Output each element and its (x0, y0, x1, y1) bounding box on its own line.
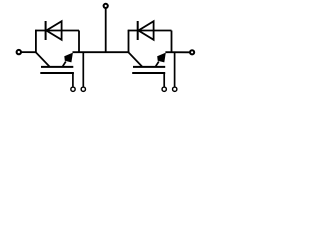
wire collector riser 2 (128, 30, 130, 53)
wire aux emitter E1 down (82, 52, 84, 86)
transistor T2 gate lead down (163, 73, 165, 87)
wire diode D2 anode down (171, 31, 173, 53)
transistor T2 collector diagonal (129, 52, 143, 67)
transistor T1 emitter arrow (62, 53, 73, 67)
transistor T2 emitter arrow (155, 53, 166, 67)
diode D1 axis lead (through wire) (35, 30, 79, 32)
transistor T1 gate lead down (72, 73, 74, 87)
terminal E2 main (right edge) (190, 50, 194, 54)
wire aux emitter E2 down (174, 52, 176, 86)
terminal G1 (gate, bottom left circle) (71, 87, 75, 91)
diode D2 triangle (138, 21, 153, 40)
wire emitter 2 to right terminal (165, 51, 189, 53)
diode D1 triangle (46, 21, 61, 40)
transistor T1 channel bar (41, 66, 73, 68)
transistor T1 collector diagonal (36, 52, 50, 67)
transistor T2 gate bar (132, 72, 165, 74)
transistor T2 channel bar (133, 66, 165, 68)
diode D2 cathode bar (137, 21, 139, 40)
terminal C1 (left collector terminal) (17, 50, 21, 54)
diode D1 cathode bar (45, 21, 47, 40)
terminal G2 (gate, bottom left circle) (162, 87, 166, 91)
diode D2 axis lead (through wire) (128, 30, 172, 32)
wire top terminal riser (105, 8, 107, 53)
terminal E2 (aux emitter, bottom right circle) (173, 87, 177, 91)
wire collector riser 1 (35, 30, 37, 53)
transistor T1 gate bar (40, 72, 74, 74)
terminal E1 (aux emitter, bottom right circle) (81, 87, 85, 91)
terminal AC output (top center) (104, 4, 108, 8)
bus wire (emitter1 / collector2 midpoint) (73, 51, 130, 53)
wire diode D1 anode down to bus (78, 31, 80, 53)
wire C1 to collector node (21, 51, 36, 53)
